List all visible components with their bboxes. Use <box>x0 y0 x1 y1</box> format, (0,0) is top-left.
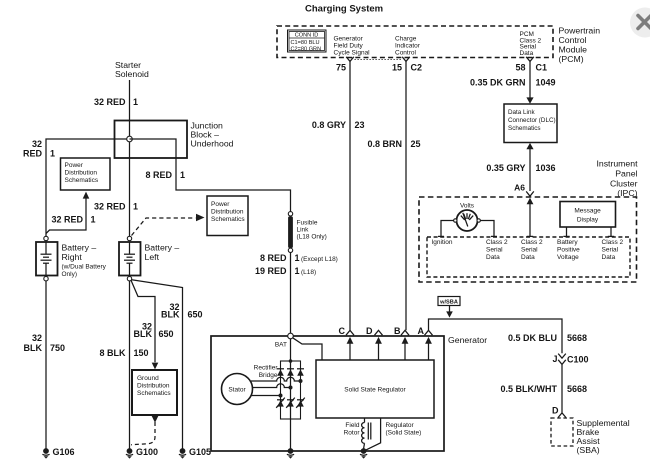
diode D1 (top left) <box>277 369 284 376</box>
svg-text:A: A <box>418 326 425 336</box>
svg-text:Field: Field <box>345 422 359 429</box>
svg-text:Charge: Charge <box>395 36 417 43</box>
svg-text:650: 650 <box>159 329 174 339</box>
box: Ground Distribution Schematics <box>132 370 177 415</box>
svg-text:Data Link: Data Link <box>508 109 535 116</box>
wire: regulator output arrow to terminal B <box>404 343 406 361</box>
wire: message display to Battery Positive Voltage <box>566 227 568 236</box>
svg-text:w/SBA: w/SBA <box>439 300 458 306</box>
svg-text:C100: C100 <box>567 355 589 365</box>
wire: A6 to Class 2 Serial Data inside IPC <box>527 198 534 204</box>
svg-text:Data: Data <box>486 254 500 261</box>
svg-text:RED: RED <box>23 149 43 159</box>
svg-text:(w/Dual Battery: (w/Dual Battery <box>62 264 107 271</box>
reference tag box: w/SBA <box>438 297 460 306</box>
wire: stator phase 1 with hops to right column <box>251 377 301 381</box>
wire: junction block feed to battery right <box>46 139 130 236</box>
svg-text:Data: Data <box>521 254 535 261</box>
wire: stator phase 2 with hop to center column <box>252 384 291 388</box>
svg-text:650: 650 <box>188 310 203 320</box>
diode D2 (top center) <box>287 369 294 376</box>
svg-text:5668: 5668 <box>567 333 587 343</box>
svg-text:Generator: Generator <box>334 36 364 43</box>
wire: 32 BLK 650 battery left to G105 <box>132 280 183 449</box>
node: splice in junction block <box>127 136 133 142</box>
svg-text:Distribution: Distribution <box>211 209 244 216</box>
svg-text:0.5 DK BLU: 0.5 DK BLU <box>508 333 557 343</box>
svg-text:Panel: Panel <box>615 169 637 179</box>
IPC inner dashed box <box>427 237 630 277</box>
svg-text:1036: 1036 <box>536 163 556 173</box>
ground G100 <box>126 447 158 459</box>
svg-text:Right: Right <box>62 252 83 262</box>
svg-text:Distribution: Distribution <box>65 170 98 177</box>
svg-text:Left: Left <box>145 252 160 262</box>
svg-text:C1=80 BLU: C1=80 BLU <box>291 40 320 46</box>
dashed reference arrow from battery left to power distribution schematics <box>132 218 196 236</box>
svg-text:Bridge: Bridge <box>259 372 278 379</box>
svg-text:Voltage: Voltage <box>557 254 579 261</box>
diode D6 (bottom right, avalanche) <box>296 398 305 408</box>
svg-text:58: 58 <box>515 63 525 73</box>
svg-text:Charging System: Charging System <box>305 4 383 15</box>
svg-text:Volts: Volts <box>460 203 475 210</box>
svg-text:BLK: BLK <box>161 310 180 320</box>
svg-text:Distribution: Distribution <box>137 383 170 390</box>
svg-text:G100: G100 <box>136 447 158 457</box>
wire: 32 BLK 650 battery left to ground distribution <box>131 280 155 362</box>
svg-text:8 RED: 8 RED <box>260 253 287 263</box>
svg-text:Control: Control <box>395 50 417 57</box>
wire: regulator output arrow to terminal A <box>428 343 430 361</box>
svg-text:75: 75 <box>336 63 346 73</box>
svg-text:8 RED: 8 RED <box>145 170 172 180</box>
svg-text:Message: Message <box>574 208 601 215</box>
diode D4 (bottom left, avalanche) <box>276 398 285 408</box>
wire: main BAT bus down through rectifier bridge to case ground <box>290 339 292 450</box>
generator case box <box>211 336 444 451</box>
svg-text:0.8 BRN: 0.8 BRN <box>367 139 402 149</box>
PCM dashed module box <box>277 26 553 58</box>
svg-text:BLK: BLK <box>134 329 153 339</box>
svg-text:Powertrain: Powertrain <box>559 26 601 36</box>
IPC dashed module box <box>419 197 637 282</box>
svg-text:Solid State Regulator: Solid State Regulator <box>344 387 406 394</box>
svg-text:Solenoid: Solenoid <box>115 69 149 79</box>
svg-text:Rectifier: Rectifier <box>254 365 279 372</box>
rectifier bridge box <box>281 361 301 419</box>
box: Data Link Connector (DLC) Schematics <box>504 104 557 143</box>
svg-text:D: D <box>552 406 559 416</box>
svg-text:Underhood: Underhood <box>191 139 234 149</box>
svg-text:BLK: BLK <box>24 343 43 353</box>
wire: 32 RED 1 from starter solenoid down through junction block to battery left <box>129 80 131 236</box>
wire: 0.8 GRY 23 from PCM pin 75 to generator terminal C <box>349 61 351 330</box>
svg-text:0.35 DK GRN: 0.35 DK GRN <box>470 78 526 88</box>
svg-text:BAT: BAT <box>275 342 287 349</box>
svg-text:150: 150 <box>134 348 149 358</box>
battery B1: Battery - Right <box>36 236 58 281</box>
svg-text:0.8 GRY: 0.8 GRY <box>312 120 346 130</box>
svg-text:Stator: Stator <box>228 387 246 394</box>
svg-text:Battery: Battery <box>557 239 578 246</box>
wire: volts gauge to Ignition <box>441 221 454 237</box>
stator winding <box>222 374 253 405</box>
wire: volts gauge to Class 2 Serial Data <box>480 221 494 237</box>
svg-text:B: B <box>394 326 401 336</box>
ground G106 <box>42 447 74 459</box>
svg-text:Module: Module <box>559 45 588 55</box>
wire: 0.35 GRY 1036 from IPC to DLC <box>526 143 533 149</box>
svg-text:(PCM): (PCM) <box>559 54 584 64</box>
svg-text:1: 1 <box>91 215 96 225</box>
svg-text:Class 2: Class 2 <box>486 239 508 246</box>
close button <box>630 8 650 38</box>
CONN ID table <box>288 30 327 52</box>
wire: 0.5 BLK/WHT 5668 from C100 to SBA <box>561 365 563 413</box>
connector cup pin 75 <box>346 57 354 62</box>
SBA dashed module box <box>551 418 573 446</box>
svg-text:Field Duty: Field Duty <box>334 43 364 50</box>
svg-text:Control: Control <box>559 35 587 45</box>
svg-text:Power: Power <box>65 162 84 169</box>
svg-text:Serial: Serial <box>486 247 503 254</box>
battery B2: Battery - Left <box>119 236 141 281</box>
fusible link (L18 only) <box>288 212 293 253</box>
box: Message Display <box>560 202 616 228</box>
svg-text:32: 32 <box>32 139 42 149</box>
node: field rotor case ground junction <box>361 448 367 454</box>
ground G105 <box>179 447 211 459</box>
svg-text:Indicator: Indicator <box>395 43 421 50</box>
svg-text:Fusible: Fusible <box>297 220 318 227</box>
svg-text:8 BLK: 8 BLK <box>99 348 126 358</box>
wire: stator phase 3 to left column <box>251 395 281 397</box>
svg-text:1: 1 <box>133 202 138 212</box>
wire: regulator output arrow to terminal C <box>349 343 351 361</box>
svg-text:Regulator: Regulator <box>386 422 415 429</box>
svg-text:Power: Power <box>211 201 230 208</box>
wire: 0.8 BRN 25 from PCM pin 15 to generator terminal B <box>405 61 407 330</box>
wire: 8 RED / 19 RED from fusible link to generator BAT <box>290 253 292 334</box>
svg-text:15: 15 <box>392 63 402 73</box>
diode D5 (bottom center, avalanche) <box>286 398 295 408</box>
wire: 8 BLK 150 battery left to G100 <box>129 281 131 449</box>
svg-text:Data: Data <box>602 254 616 261</box>
wire: 32 RED 1 branch to power distribution (arrow up) <box>46 198 86 233</box>
wire: regulator output arrow to terminal D <box>378 343 380 361</box>
svg-text:Rotor: Rotor <box>344 430 361 437</box>
svg-text:CONN ID: CONN ID <box>295 32 319 38</box>
svg-text:C: C <box>339 326 346 336</box>
wire: BAT feed to solid state regulator <box>293 338 322 360</box>
svg-text:Data: Data <box>520 50 534 57</box>
svg-text:0.35 GRY: 0.35 GRY <box>486 163 525 173</box>
svg-text:Cycle Signal: Cycle Signal <box>334 50 371 57</box>
connector cup pin 58 <box>526 57 534 62</box>
svg-text:1: 1 <box>295 253 300 263</box>
svg-text:(Except L18): (Except L18) <box>301 256 338 263</box>
svg-text:23: 23 <box>355 120 365 130</box>
svg-text:32 RED: 32 RED <box>94 202 126 212</box>
svg-text:Positive: Positive <box>557 247 580 254</box>
svg-text:Battery –: Battery – <box>145 243 180 253</box>
wire: regulator ground leg <box>366 418 381 450</box>
svg-text:A6: A6 <box>514 183 525 193</box>
svg-text:19 RED: 19 RED <box>255 266 287 276</box>
svg-text:Instrument: Instrument <box>596 159 638 169</box>
svg-text:1: 1 <box>50 149 55 159</box>
svg-text:Battery –: Battery – <box>62 243 97 253</box>
svg-text:Serial: Serial <box>521 247 538 254</box>
svg-text:(L18): (L18) <box>301 269 316 276</box>
dotted connector line between pins 75 and 15 <box>355 58 402 60</box>
svg-text:Schematics: Schematics <box>65 177 99 184</box>
dashed reference arrow from ground distribution schematics to G100 <box>152 416 159 423</box>
svg-text:25: 25 <box>411 139 421 149</box>
field rotor coil L1 <box>362 418 371 449</box>
terminal BAT of generator <box>288 333 294 339</box>
svg-text:Only): Only) <box>62 271 78 278</box>
svg-text:Schematics: Schematics <box>211 216 245 223</box>
svg-text:5668: 5668 <box>567 384 587 394</box>
svg-text:32 RED: 32 RED <box>51 215 83 225</box>
node: rectifier bridge case ground junction <box>288 448 294 454</box>
svg-text:(L18 Only): (L18 Only) <box>297 234 327 241</box>
svg-text:(SBA): (SBA) <box>577 445 600 455</box>
svg-text:Serial: Serial <box>602 247 619 254</box>
box: Power Distribution Schematics (left) <box>61 158 111 190</box>
svg-text:0.5 BLK/WHT: 0.5 BLK/WHT <box>500 384 557 394</box>
svg-text:Ignition: Ignition <box>432 239 453 246</box>
svg-text:Cluster: Cluster <box>610 179 638 189</box>
box: Power Distribution Schematics (right) <box>207 196 248 236</box>
svg-text:C1: C1 <box>536 63 548 73</box>
svg-text:1: 1 <box>180 170 185 180</box>
svg-text:D: D <box>366 326 373 336</box>
wire: 8 RED 1 from junction block to fusible link <box>130 139 291 212</box>
wire: 0.35 DK GRN 1049 from PCM pin 58 to DLC <box>529 61 531 98</box>
svg-text:G105: G105 <box>189 447 211 457</box>
voltmeter gauge: Volts <box>454 203 481 232</box>
svg-text:1049: 1049 <box>536 78 556 88</box>
svg-text:Generator: Generator <box>448 335 487 345</box>
arrow from w/SBA tag to wire <box>449 306 451 313</box>
svg-text:Schematics: Schematics <box>508 125 541 132</box>
svg-text:J: J <box>552 354 557 364</box>
svg-text:32: 32 <box>32 333 42 343</box>
wire: 0.5 DK BLU 5668 from generator terminal A to C100 <box>429 319 563 353</box>
svg-text:32 RED: 32 RED <box>94 97 126 107</box>
svg-text:Class 2: Class 2 <box>602 239 624 246</box>
svg-text:1: 1 <box>295 266 300 276</box>
svg-text:Schematics: Schematics <box>137 390 171 397</box>
wire: message display to Class 2 Serial Data <box>610 227 612 236</box>
svg-text:750: 750 <box>50 343 65 353</box>
svg-text:Display: Display <box>577 216 599 223</box>
svg-text:1: 1 <box>133 97 138 107</box>
svg-text:Class 2: Class 2 <box>521 239 543 246</box>
svg-text:(Solid State): (Solid State) <box>386 430 422 437</box>
junction block box <box>115 121 188 159</box>
wire: 32 BLK 750 battery right to G106 <box>45 281 47 449</box>
svg-text:G106: G106 <box>53 447 75 457</box>
svg-text:Ground: Ground <box>137 375 159 382</box>
svg-text:C2=80 GRN: C2=80 GRN <box>291 46 322 52</box>
svg-text:Connector (DLC): Connector (DLC) <box>508 117 556 124</box>
node: bridge top junction <box>289 359 293 363</box>
diode D3 (top right) <box>297 369 304 376</box>
connector cup pin 15 <box>402 57 410 62</box>
svg-text:C2: C2 <box>411 63 423 73</box>
solid state regulator box U1 <box>316 360 434 418</box>
svg-text:Link: Link <box>297 227 310 234</box>
